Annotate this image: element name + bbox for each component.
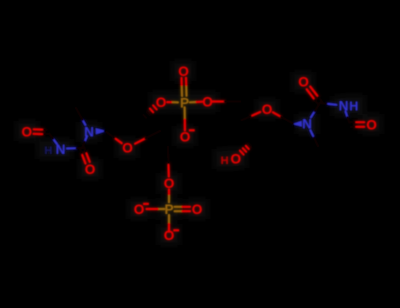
wire N1-C2 left base	[82, 136, 87, 148]
wire O5'-C5' right	[213, 100, 242, 102]
svg-text:N: N	[84, 125, 94, 140]
svg-text:O: O	[180, 130, 191, 145]
wire C4'-C3' left sugar	[143, 118, 162, 130]
svg-text:P: P	[164, 202, 173, 217]
wire N1-C6 left base	[76, 108, 85, 125]
wire C4-C5 left base	[48, 113, 54, 132]
wire N1-C2 right base	[311, 103, 320, 117]
svg-text:O: O	[202, 95, 213, 110]
svg-text:O: O	[298, 75, 309, 90]
svg-text:H: H	[44, 145, 52, 157]
wire C2'-C3' right sugar	[252, 143, 288, 150]
wire C6-N1 right base	[310, 130, 318, 146]
C4=O4 right base double bond	[350, 122, 364, 127]
svg-text:O: O	[231, 152, 242, 167]
svg-text:O: O	[164, 176, 175, 191]
wire P-O(-) bottom	[168, 215, 170, 232]
charge minus left bottom O	[143, 203, 149, 205]
wire C2'-C1' left sugar	[105, 112, 118, 131]
wire C1'-C2' right sugar	[288, 124, 294, 150]
svg-text:N: N	[339, 99, 349, 114]
wire O4'-C1' right sugar	[273, 112, 294, 124]
C2=O2 right base double bond	[307, 87, 322, 105]
wire P-O(-) central	[184, 107, 186, 130]
svg-text:H: H	[349, 100, 358, 114]
svg-text:O: O	[366, 118, 377, 133]
wire N3-C4 right base	[346, 112, 350, 125]
wire N3-C4 left base	[48, 132, 57, 144]
wire C4-C5 right base	[340, 125, 350, 151]
svg-text:O: O	[192, 202, 203, 217]
svg-text:P: P	[180, 96, 189, 111]
wire N3-C2 left base	[67, 147, 82, 150]
svg-text:O: O	[22, 125, 33, 140]
wire C5'-O5' down chain	[167, 147, 170, 177]
svg-text:O: O	[164, 228, 175, 243]
svg-text:N: N	[56, 142, 66, 157]
wire C4'-C5' left sugar	[162, 130, 168, 147]
svg-text:O: O	[134, 202, 145, 217]
wire P-O5' right	[190, 101, 202, 104]
wire C5'-C4' right sugar	[240, 102, 242, 122]
svg-text:O: O	[156, 95, 167, 110]
wire C4'-O4' right sugar	[240, 112, 260, 121]
C2=O2 left base double bond	[80, 147, 90, 163]
faint background smudge patches (jpeg-like)	[16, 61, 382, 245]
svg-text:N: N	[302, 117, 312, 132]
wedge bond C1'-N1 right	[294, 121, 302, 127]
svg-text:H: H	[221, 155, 229, 167]
P=O central double bond	[182, 78, 187, 96]
svg-text:O: O	[85, 162, 96, 177]
wire O4'-C4' left sugar	[135, 130, 162, 144]
wire C2-N3 right base	[320, 103, 336, 105]
hash bond C3'-OH right sugar	[240, 143, 252, 154]
svg-text:O: O	[262, 102, 273, 117]
wedge bond C1'-N1 left	[96, 128, 105, 135]
wire C1'-O4' left sugar	[105, 131, 122, 143]
wire C3'-C2' left sugar	[118, 112, 143, 118]
C4=O4 left base double bond	[34, 129, 49, 134]
charge minus bottom O	[173, 229, 179, 231]
svg-text:O: O	[122, 141, 133, 156]
charge minus central O	[189, 129, 195, 131]
svg-text:O: O	[178, 64, 189, 79]
wire O3'-P central	[167, 101, 178, 104]
wire C5-C6 left base	[54, 108, 76, 113]
P=O bottom double bond	[175, 207, 190, 211]
hash bond C3'-O3' left sugar	[144, 105, 157, 117]
wire O5'-P bottom	[168, 190, 170, 203]
wire P-O(-) left bottom	[147, 208, 165, 210]
wire C5-C6 right base	[318, 146, 340, 150]
wire C3'-C4' right sugar	[240, 121, 252, 143]
